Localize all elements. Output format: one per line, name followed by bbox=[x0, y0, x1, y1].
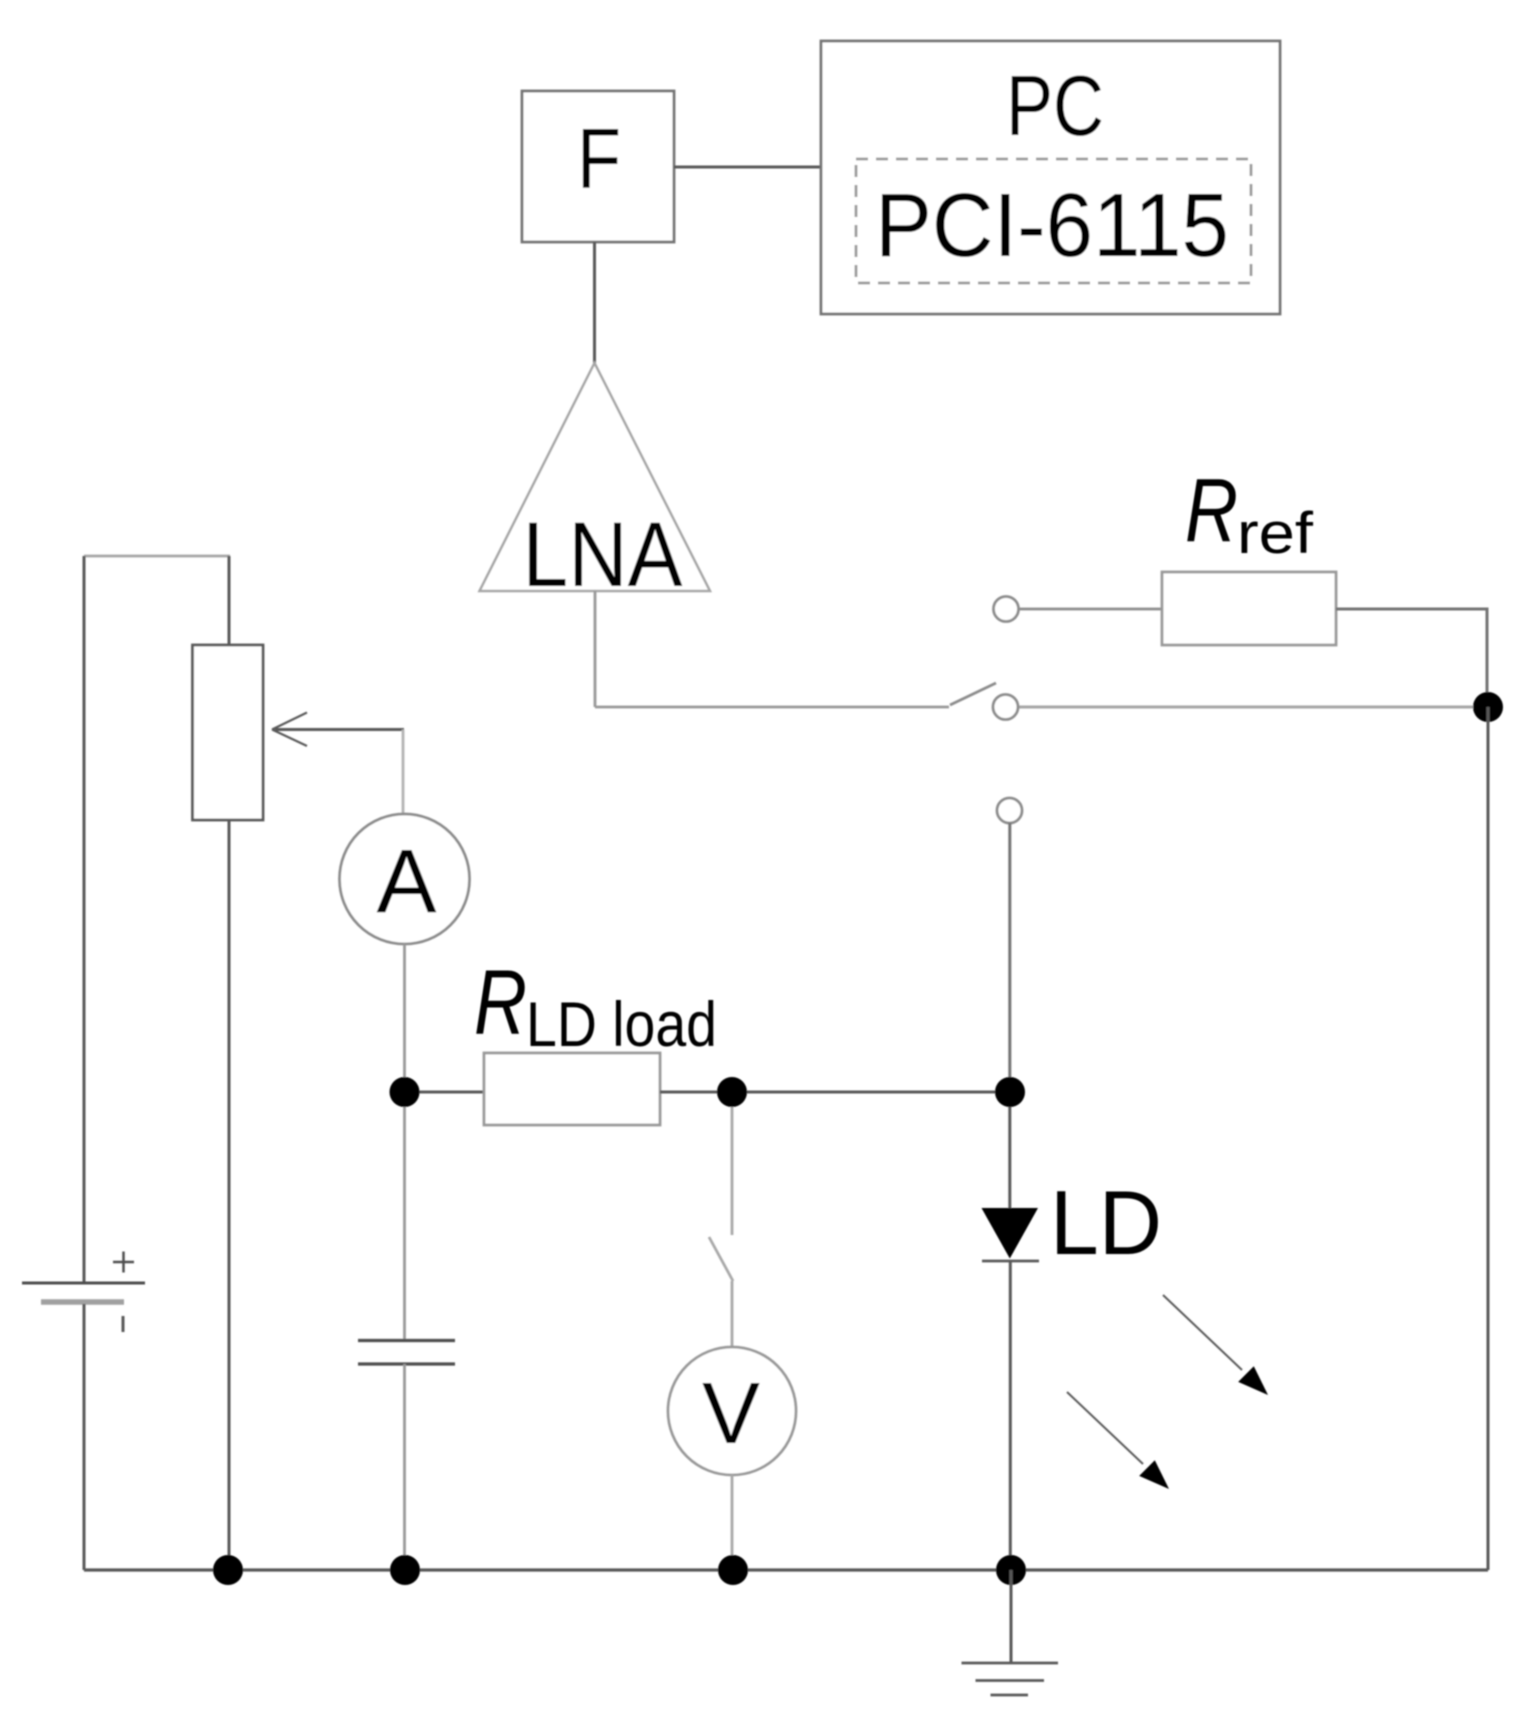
svg-text:PC: PC bbox=[1006, 59, 1104, 154]
svg-text:LD: LD bbox=[1050, 1173, 1162, 1274]
svg-text:R: R bbox=[474, 952, 527, 1054]
svg-text:ref: ref bbox=[1237, 501, 1314, 566]
svg-text:PCI-6115: PCI-6115 bbox=[875, 176, 1229, 276]
svg-text:A: A bbox=[376, 832, 436, 932]
svg-text:LNA: LNA bbox=[523, 504, 684, 606]
svg-text:LD load: LD load bbox=[526, 990, 717, 1060]
svg-text:F: F bbox=[577, 112, 621, 207]
svg-text:R: R bbox=[1185, 461, 1238, 561]
svg-text:V: V bbox=[702, 1365, 760, 1462]
